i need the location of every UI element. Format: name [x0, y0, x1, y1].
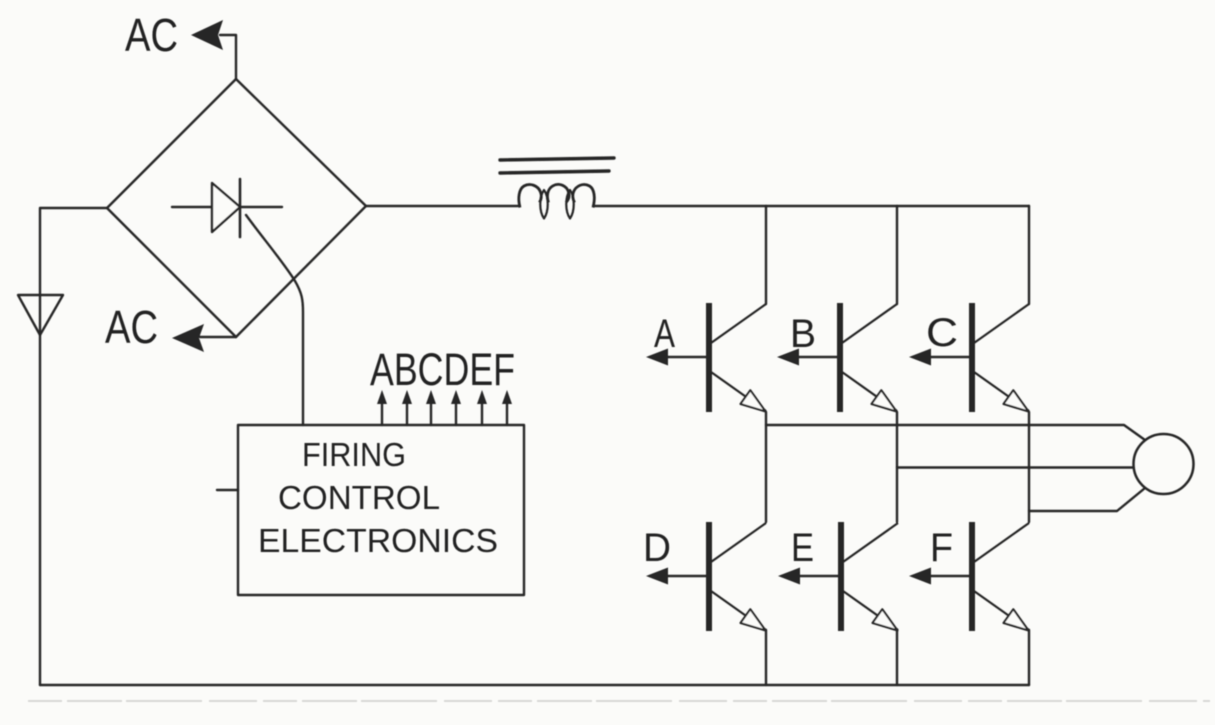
svg-text:A: A — [654, 312, 675, 356]
svg-text:ELECTRONICS: ELECTRONICS — [258, 522, 498, 559]
svg-text:AC: AC — [125, 9, 178, 61]
svg-text:C: C — [926, 311, 958, 355]
svg-text:FIRING: FIRING — [302, 436, 406, 473]
svg-text:ABCDEF: ABCDEF — [370, 344, 515, 395]
svg-text:F: F — [930, 526, 953, 570]
svg-text:AC: AC — [105, 301, 158, 353]
svg-text:E: E — [791, 526, 814, 570]
svg-text:D: D — [643, 526, 671, 570]
svg-text:B: B — [790, 312, 816, 356]
svg-text:CONTROL: CONTROL — [278, 479, 440, 516]
